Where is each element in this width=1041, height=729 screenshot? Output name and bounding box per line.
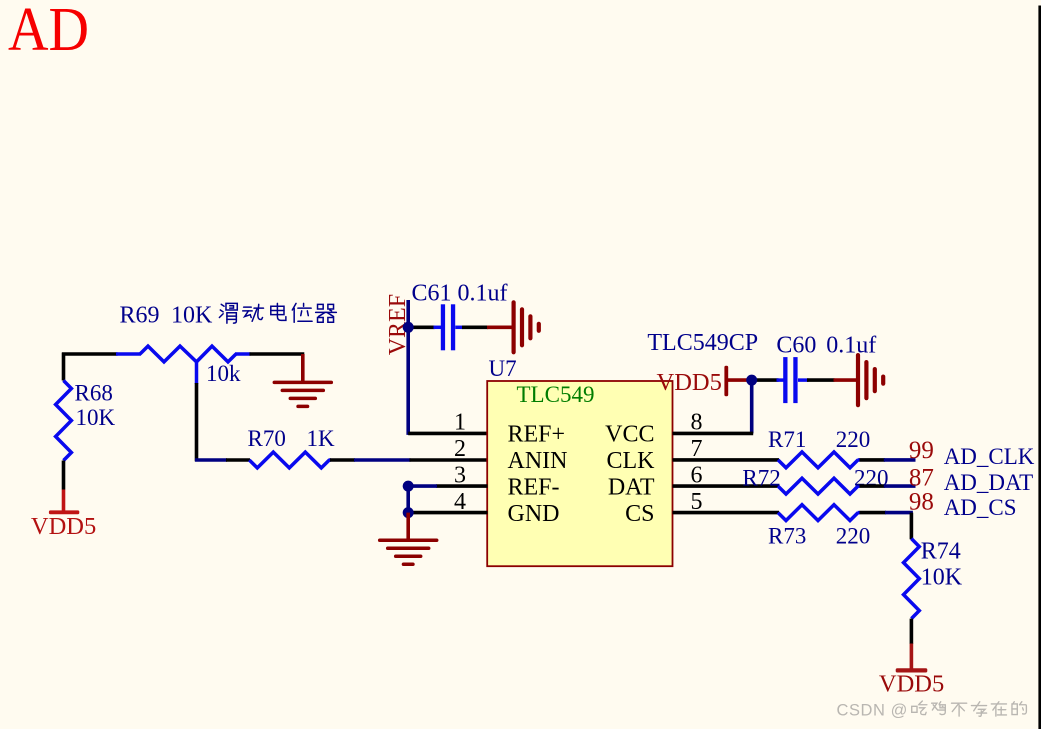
power VDD5 left (62, 490, 66, 513)
svg-text:R70: R70 (248, 426, 286, 451)
svg-text:2: 2 (454, 436, 466, 462)
ground G1 (301, 354, 305, 382)
svg-text:DAT: DAT (608, 474, 655, 500)
wire R73 out to corner (860, 511, 887, 515)
wire VREF to C61 (408, 325, 434, 329)
wire pin3 (436, 484, 488, 488)
sheet right border (1038, 6, 1041, 729)
capacitor C61 (434, 326, 442, 330)
wire R69 wiper down (195, 362, 199, 384)
wire C61 to earth (462, 325, 488, 329)
svg-text:1K: 1K (307, 426, 336, 451)
wire pin to R71 (673, 458, 780, 462)
junction VREF (403, 322, 414, 333)
capacitor C60 (777, 378, 784, 382)
svg-text:10K: 10K (921, 564, 963, 590)
svg-text:VDD5: VDD5 (31, 513, 96, 540)
svg-text:U7: U7 (489, 356, 517, 381)
svg-text:0.1uf: 0.1uf (826, 333, 876, 359)
svg-text:VDD5: VDD5 (657, 369, 722, 396)
wire pin4 (406, 511, 488, 515)
svg-text:CLK: CLK (607, 448, 656, 474)
power VDD5 bottom (910, 644, 914, 670)
wire pin8 (673, 432, 754, 436)
earth E1 sideways (511, 302, 515, 352)
wire R68 top to R69 left (62, 352, 118, 356)
svg-text:98: 98 (909, 488, 934, 515)
wire R68 bottom (62, 461, 66, 490)
label CJK 滑动电位器 (219, 303, 237, 323)
resistor R74 (904, 539, 920, 619)
svg-text:GND: GND (508, 501, 560, 527)
svg-text:R73: R73 (768, 523, 806, 548)
svg-text:TLC549CP: TLC549CP (647, 330, 758, 356)
wire VDD5 down to pin8 (750, 380, 754, 433)
resistor R68 (56, 381, 72, 461)
svg-text:ANIN: ANIN (508, 448, 568, 474)
svg-text:10K: 10K (76, 405, 116, 430)
svg-text:1: 1 (454, 410, 466, 436)
svg-text:R69: R69 (120, 302, 160, 328)
resistor R69 potentiometer (116, 352, 141, 356)
svg-text:R72: R72 (742, 465, 780, 490)
svg-text:REF+: REF+ (508, 422, 566, 448)
wire VDD5 to C60 (748, 378, 779, 382)
svg-text:CS: CS (625, 501, 654, 527)
svg-text:CSDN @: CSDN @ (837, 701, 908, 719)
wire pin to R73 (673, 511, 780, 515)
svg-text:AD: AD (8, 0, 89, 64)
svg-text:REF-: REF- (508, 474, 560, 500)
junction VDD5 (746, 375, 757, 386)
wire R72 out (860, 484, 886, 488)
svg-text:99: 99 (909, 437, 934, 464)
ground G2 (406, 513, 410, 539)
wire pin1 (408, 432, 487, 436)
resistor R71 (778, 452, 858, 468)
wire pin to R72 (673, 484, 780, 488)
wire junction vertical (406, 486, 410, 512)
op-amp U7 TLC549 IC body (487, 381, 672, 566)
power VDD5 bar top (724, 366, 728, 396)
resistor R72 (778, 478, 858, 494)
earth E2 sideways (856, 355, 860, 405)
svg-text:AD_DAT: AD_DAT (944, 470, 1033, 495)
net VREF vertical wire (406, 300, 410, 435)
svg-text:VDD5: VDD5 (879, 671, 944, 698)
svg-text:R71: R71 (768, 427, 806, 452)
svg-text:C60: C60 (776, 333, 816, 359)
svg-text:220: 220 (836, 523, 871, 548)
svg-text:AD_CS: AD_CS (944, 495, 1017, 520)
junction pin4 (403, 507, 414, 518)
resistor R70 (249, 452, 329, 468)
svg-text:C61 0.1uf: C61 0.1uf (412, 280, 508, 306)
wire corner down to R74 (910, 513, 914, 540)
wire wiper to R70 (195, 458, 227, 462)
svg-text:R74: R74 (921, 539, 961, 565)
svg-text:VCC: VCC (605, 422, 654, 448)
junction pin3 (403, 481, 414, 492)
wire C60 to earth (807, 378, 835, 382)
svg-text:220: 220 (836, 427, 871, 452)
wire R71 out (860, 458, 886, 462)
wire R69 right to ground (250, 352, 305, 356)
wire R74 bottom (910, 619, 914, 644)
svg-text:10k: 10k (206, 361, 241, 386)
svg-text:R68: R68 (75, 380, 113, 405)
wire R70 to pin2 (330, 458, 355, 462)
svg-text:AD_CLK: AD_CLK (944, 444, 1035, 469)
svg-text:10K: 10K (171, 302, 213, 328)
svg-text:TLC549: TLC549 (517, 382, 595, 407)
resistor R73 (778, 505, 858, 521)
